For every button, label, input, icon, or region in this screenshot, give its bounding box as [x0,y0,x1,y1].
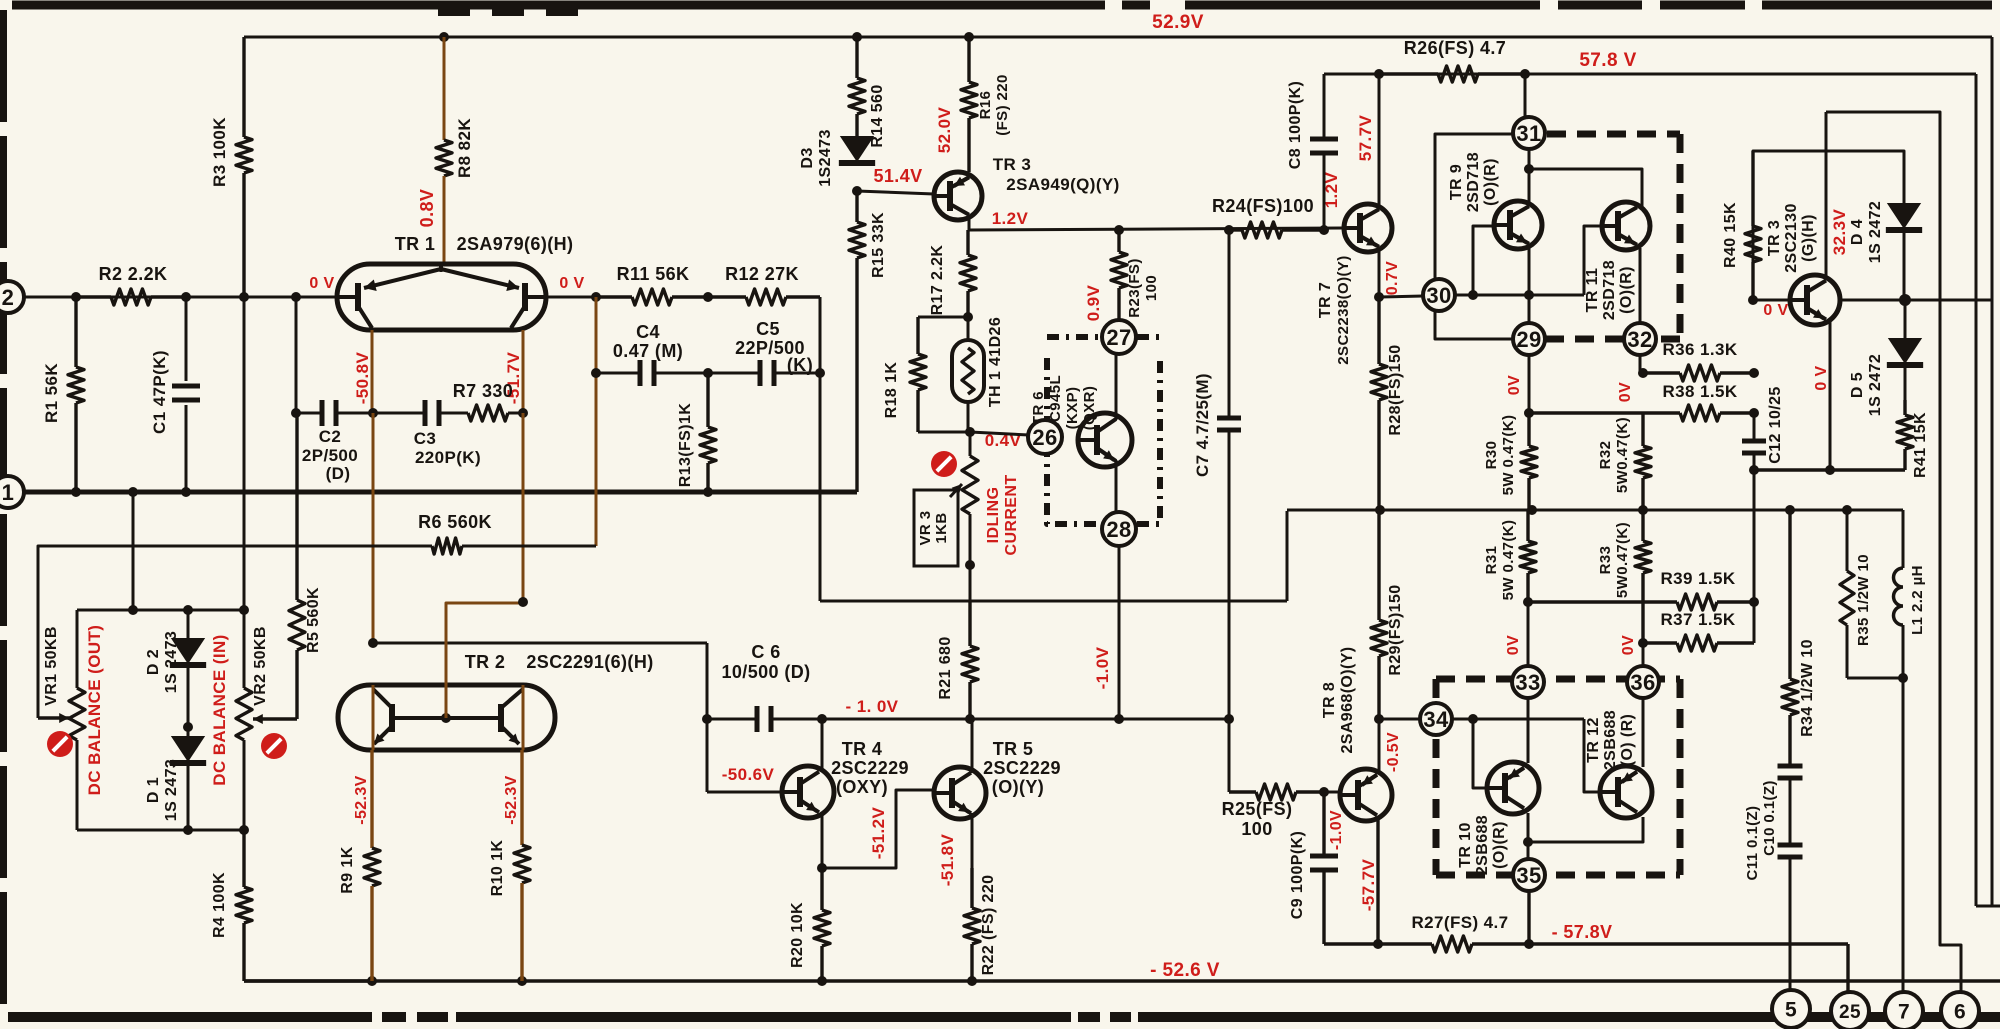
label R13 [677,403,694,488]
resistor R13(FS)1K [700,373,716,492]
node R29 bot [1374,714,1384,724]
label 0V left [309,275,334,292]
label R8 [455,118,474,178]
svg-text:27: 27 [1106,325,1131,350]
box TR9/TR11 [1435,134,1680,339]
resistor R26(FS) 4.7 [1379,66,1525,82]
resistor R21 680 [962,601,978,719]
wire R3col down [243,297,246,610]
svg-text:-52.3V: -52.3V [503,775,520,825]
svg-text:0 V: 0 V [559,275,584,292]
label TR6 [1030,375,1098,441]
label -51.8V [938,834,957,887]
svg-text:52.9V: 52.9V [1152,12,1204,33]
svg-text:52.0V: 52.0V [935,107,954,154]
wire TR3 emitter lead [968,215,971,230]
node VR3 bot [965,560,975,570]
svg-text:(FS) 220: (FS) 220 [994,74,1011,136]
label TR4 [831,739,909,797]
label R14 [869,84,886,147]
resistor R24(FS)100 [1229,222,1324,238]
terminal 5 [1772,990,1810,1028]
node C2-C3 [368,408,378,418]
label D2 [145,631,180,693]
resistor R17 2.2K [960,230,976,317]
wire 57.8 to T25 [1846,944,1849,999]
capacitor C12 10/25 [1742,413,1766,470]
svg-text:2SA968(O)(Y): 2SA968(O)(Y) [1339,646,1356,753]
node out-R30 [1527,505,1537,515]
diode D4 1S2472 [1886,191,1922,300]
adjust mark VR3 [931,451,957,477]
label TR11 [1584,260,1635,320]
label R33 [1597,522,1631,598]
node C4-C5 [703,368,713,378]
pin 28 [1102,512,1136,546]
resistor R10 1K [514,750,530,981]
svg-text:1S 2472: 1S 2472 [1867,201,1884,263]
svg-text:C7 4.7/25(M): C7 4.7/25(M) [1193,373,1212,477]
node R11-R12 [703,292,713,302]
label -1.0V mid [1093,646,1112,689]
label R39 [1660,569,1735,588]
label -1.0V c6 [846,697,899,716]
border top [12,5,1992,11]
wire R33-36 [1642,643,1645,666]
svg-text:TR 11: TR 11 [1584,268,1601,313]
svg-text:2SC2238(O)(Y): 2SC2238(O)(Y) [1335,255,1352,364]
node R36 left [1638,368,1648,378]
svg-text:32: 32 [1627,327,1652,352]
capacitor C11 0.1(Z) [1778,845,1803,857]
svg-text:100: 100 [1241,819,1272,839]
svg-text:57.7V: 57.7V [1356,115,1375,162]
svg-text:R37 1.5K: R37 1.5K [1660,610,1735,629]
capacitor C5 22P/500(K) [708,360,820,386]
svg-text:(O)(R): (O)(R) [1618,266,1635,314]
pot VR2 50KB [236,610,297,830]
svg-text:(QXR): (QXR) [1081,386,1098,431]
border bottom [8,1012,2000,1022]
wire TR7 emitter [1378,247,1381,295]
box VR3 label [914,490,958,566]
wire R35-L1 top [1847,509,1903,512]
node y230-C7 [1224,225,1234,235]
svg-text:2SC2130: 2SC2130 [1783,203,1800,273]
pot VR1 50KB [38,610,85,830]
label TR1 [395,234,574,254]
node out-C10 [1785,505,1795,515]
node D2-D1 [183,722,193,732]
transistor TR8 2SA968 [1340,769,1392,821]
svg-text:R1 56K: R1 56K [42,363,61,423]
wire 523col mid [522,413,525,602]
node R38 left [1524,408,1534,418]
label 0V 33 [1505,635,1522,655]
svg-text:TR 3: TR 3 [1766,220,1783,256]
label R22 [980,875,997,976]
thermistor TH1 4ID26 [952,317,984,432]
svg-text:(OXY): (OXY) [836,777,888,797]
wire TR1 emitters top [440,264,443,272]
resistor R5 560K [289,413,305,719]
svg-text:C11 0.1(Z): C11 0.1(Z) [1744,806,1761,881]
label R5 [305,587,322,653]
transistor TR7 2SC2238 [1344,204,1392,252]
inductor L1 2.2uH [1894,510,1904,678]
svg-text:1S 2473: 1S 2473 [163,759,180,821]
wire TR1 rbase to node [546,296,596,299]
node TR8 base [1319,787,1329,797]
wire TR4 collector [821,719,824,772]
resistor R41 15K [1897,400,1913,470]
svg-text:10/500 (D): 10/500 (D) [721,662,810,682]
label VR2 [252,626,269,706]
svg-text:TR 10: TR 10 [1457,822,1474,868]
wire TR8 emitter [1376,817,1379,944]
node vrbot VR2 [239,825,249,835]
svg-text:36: 36 [1630,670,1655,695]
svg-text:D 1: D 1 [145,777,162,803]
svg-text:-1.0V: -1.0V [1093,646,1112,689]
resistor R38 1.5K [1529,405,1754,421]
label -50.6V [722,765,775,784]
label -57.8V [1552,922,1613,942]
svg-text:R17 2.2K: R17 2.2K [929,245,946,316]
wire out y510 [1287,509,1903,512]
label R18 [883,362,900,419]
svg-text:(G)(H): (G)(H) [1800,214,1817,262]
wire TR4 emitter [821,812,824,868]
label -50.8V [353,352,372,405]
wire y601 riser [1286,511,1289,601]
wire VR3 to bias [969,565,972,601]
node R36 right [1749,368,1759,378]
svg-text:TR 12: TR 12 [1585,717,1602,763]
svg-text:1: 1 [2,480,15,505]
svg-text:2SC2229: 2SC2229 [831,758,909,778]
wire y151 link [1753,151,1904,300]
node rail-D3 [852,32,862,42]
transistor TR2 2SC2291 [338,685,555,750]
label DC BALANCE OUT [85,625,104,796]
pin 35 [1513,859,1545,891]
wire TR9 base [1473,226,1494,295]
label R28 [1387,344,1404,435]
label R41 [1912,412,1929,478]
node R39 right [1749,597,1759,607]
svg-text:TR 8: TR 8 [1321,682,1338,718]
label R29 [1387,584,1404,675]
svg-text:1.2V: 1.2V [1322,171,1341,208]
node y470 TR3pe [1825,465,1835,475]
svg-text:(O)(R): (O)(R) [1482,158,1499,206]
label 57.7V vert [1356,115,1375,162]
node TH1 bot [965,427,975,437]
wire TR10 top [1527,698,1530,763]
svg-text:5: 5 [1785,999,1797,1022]
terminal 2 [0,281,24,313]
label -51.2V [869,807,888,860]
node in-R3 [239,292,249,302]
svg-text:C1 47P(K): C1 47P(K) [150,350,169,434]
wire TR12 top [1642,698,1645,767]
node R17 bot [963,312,973,322]
label TR3p [1766,203,1817,273]
wire TR4 base col [706,719,709,792]
pin 30 [1423,279,1455,311]
label D5 [1849,354,1884,416]
wire y643 [373,642,707,645]
svg-text:C12 10/25: C12 10/25 [1767,386,1784,463]
wire input line [24,296,337,299]
svg-text:0V: 0V [1506,375,1523,395]
svg-text:6: 6 [1954,1001,1966,1024]
wire right edge 52.9 drop [1991,37,1994,906]
node R39 left [1523,597,1533,607]
pin 26 [1028,420,1062,454]
wire bias y601 [820,600,1287,603]
wire 31 to node [1528,149,1531,169]
label R30 [1483,415,1517,496]
node R20 bot [817,976,827,986]
wire +52.9V rail [244,36,1992,39]
terminal 1 [0,476,24,508]
svg-text:TH 1 41D26: TH 1 41D26 [987,317,1004,407]
wire TR2 lcol thru [372,685,375,750]
wire TR2 base up [446,603,523,718]
resistor R16(FS)220 [961,37,977,172]
svg-text:2SA949(Q)(Y): 2SA949(Q)(Y) [1006,175,1119,194]
svg-text:0 V: 0 V [1763,302,1788,319]
node TR9 e x [1524,290,1534,300]
svg-text:VR2 50KB: VR2 50KB [252,626,269,706]
svg-text:C9 100P(K): C9 100P(K) [1289,831,1306,919]
wire bias line y230 [969,228,1343,230]
wire C10-C11 [1789,778,1792,845]
svg-text:R25(FS): R25(FS) [1222,799,1293,819]
label TR9 [1448,152,1499,212]
svg-text:(O) (R): (O) (R) [1619,714,1636,767]
wire R29b to 34 [1379,718,1420,721]
node D3-TR3 [852,186,862,196]
svg-text:R7 330: R7 330 [453,381,513,401]
label L1 [1909,565,1926,635]
wire TR2 rcol thru [522,685,525,750]
resistor R37 1.5K [1643,635,1754,651]
transistor TR3 2SA949 [934,172,982,220]
label R21 [937,636,954,699]
svg-text:1S2473: 1S2473 [817,129,834,187]
wire TR3p emitter down [1829,322,1832,470]
svg-text:28: 28 [1106,517,1131,542]
node rail R10 [517,976,527,986]
wire C2 col [295,297,298,413]
svg-text:TR 5: TR 5 [993,739,1034,759]
label DC BALANCE IN [210,634,229,785]
node C8 bot [1319,225,1329,235]
wire -57.8 line [1324,942,1848,945]
resistor R31 5W0.47 [1520,510,1536,602]
pin 36 [1627,666,1659,698]
label TR10 [1457,815,1508,875]
svg-text:R20 10K: R20 10K [789,902,806,968]
svg-text:C5: C5 [756,319,780,339]
wire TR10 bot [1527,813,1530,861]
node rail-R16 [964,32,974,42]
transistor TR1 2SA979 [337,264,546,330]
svg-text:5W 0.47(K): 5W 0.47(K) [1500,415,1517,496]
svg-text:R8 82K: R8 82K [455,118,474,178]
wire 35 down [1527,891,1530,944]
svg-text:2SB688: 2SB688 [1602,710,1619,770]
node TR10 bot [1523,837,1533,847]
svg-text:32.3V: 32.3V [1830,209,1849,256]
wire 29 down [1528,355,1531,413]
svg-text:R29(FS)150: R29(FS)150 [1387,584,1404,675]
svg-text:VR1 50KB: VR1 50KB [43,626,60,706]
node out-R32 [1638,505,1648,515]
resistor R6 560K [432,538,596,554]
wire TR4 base lead [707,791,782,794]
wire TR11 emitter [1639,248,1642,323]
wire C7col to R25 [1228,719,1231,792]
pin 29 [1513,323,1545,355]
svg-text:(D): (D) [326,464,351,483]
node vrtop 131 [128,605,138,615]
svg-text:2: 2 [2,285,15,310]
resistor R4 100K [236,830,252,981]
node in-C1 [181,292,191,302]
adjust VR2 [261,733,287,759]
svg-text:C2: C2 [319,427,342,446]
svg-text:-57.7V: -57.7V [1359,859,1378,912]
pin 32 [1624,323,1656,355]
label R26 [1404,38,1506,58]
node C6 right [817,714,827,724]
diode D2 1S2473 [170,610,206,727]
label C3 [414,429,481,467]
label R9 [339,846,356,893]
node bus-131 [128,487,138,497]
node C5 right [815,368,825,378]
wire TR11 col feed [1529,169,1642,208]
box TR3p top [1826,112,1961,999]
wire 32 down [1639,355,1642,373]
wire R37R39 link [1753,470,1756,643]
svg-text:TR 4: TR 4 [842,739,883,759]
label 0.9V [1084,284,1103,321]
resistor R35 1/2W10 [1840,510,1854,678]
svg-text:-52.3V: -52.3V [353,775,370,825]
label TR2 [465,652,654,672]
label -52.3V r [503,775,520,825]
svg-text:R41 15K: R41 15K [1912,412,1929,478]
node bus-R13 [703,487,713,497]
label C4 [613,322,683,361]
label R20 [789,902,806,968]
node out-D4 [1899,294,1911,306]
border left [0,10,7,1016]
svg-text:(KXP): (KXP) [1064,387,1081,430]
svg-text:R22 (FS) 220: R22 (FS) 220 [980,875,997,976]
adjust VR1 [47,731,73,757]
wire 34 line [1452,718,1584,721]
svg-text:(O)(R): (O)(R) [1491,821,1508,869]
wire R6R11 col [595,297,598,546]
capacitor C7 4.7/25(M) [1217,230,1241,719]
wire +57.8V rail [1324,73,1976,76]
label R36 [1662,340,1737,359]
svg-text:- 52.6 V: - 52.6 V [1150,960,1220,981]
box TR6 dashed [1047,337,1160,524]
wire TR5 emitter [971,813,974,868]
label R24 [1212,196,1314,216]
node rail R9 [367,976,377,986]
wire 131 riser [132,492,135,610]
svg-text:1S 2473: 1S 2473 [163,631,180,693]
label C9 [1289,831,1306,919]
wire R31-33 [1527,602,1530,666]
svg-text:0V: 0V [1617,382,1634,402]
svg-text:R16: R16 [977,91,994,120]
svg-text:- 57.8V: - 57.8V [1552,922,1613,942]
wire L1 to T7 [1902,678,1905,999]
label R11 [617,264,690,284]
transistor TR11 2SD718 [1602,202,1650,250]
svg-text:-51.8V: -51.8V [938,834,957,887]
node vrtop VR2 [239,605,249,615]
label 52.9V [1152,12,1204,33]
label 32.3V [1830,209,1849,256]
svg-text:5W 0.47(K): 5W 0.47(K) [1500,520,1517,601]
label R3 [210,117,229,187]
node TR2b [518,597,528,607]
wire TR5 collector [971,719,974,773]
label R27 [1412,913,1509,932]
label 1.2V [992,209,1029,228]
label TR3 [993,155,1120,194]
svg-text:R33: R33 [1597,546,1614,575]
svg-text:- 1. 0V: - 1. 0V [846,697,899,716]
svg-text:C4: C4 [636,322,660,342]
resistor R28(FS)150 [1371,297,1387,510]
svg-text:R12 27K: R12 27K [725,264,799,284]
wire -52.6V rail [244,979,2000,982]
wire 28 down [1118,545,1121,719]
node out-R35 [1842,505,1852,515]
node y719 R21 [965,714,975,724]
label -0.5V [1385,732,1402,772]
label D4 [1849,201,1884,263]
label -57.7V [1359,859,1378,912]
node bus-C1 [181,487,191,497]
label -1.0V tr8 [1328,810,1345,850]
label 0V TR3p [1763,302,1788,319]
label R17 [929,245,946,316]
node R7 right [518,408,528,418]
label R32 [1597,417,1631,493]
svg-text:D3: D3 [799,147,816,168]
label R34 [1799,639,1816,737]
label 0V 36 [1620,635,1637,655]
label -52.6V [1150,960,1220,981]
svg-text:0.7V: 0.7V [1384,261,1401,296]
node vrtop D2 [183,605,193,615]
svg-text:51.4V: 51.4V [873,166,922,186]
svg-text:1S 2472: 1S 2472 [1867,354,1884,416]
transistor TR6 2SC945L [1078,413,1132,467]
